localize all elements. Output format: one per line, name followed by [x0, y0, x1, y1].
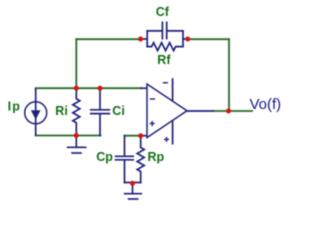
svg-text:Cf: Cf: [156, 5, 170, 19]
svg-text:Ip: Ip: [8, 100, 22, 114]
svg-text:Cp: Cp: [96, 150, 113, 164]
svg-text:Vo(f): Vo(f): [250, 96, 282, 113]
svg-text:Rp: Rp: [148, 150, 165, 164]
svg-text:Ci: Ci: [112, 104, 125, 118]
svg-text:Rf: Rf: [157, 53, 171, 67]
svg-text:Ri: Ri: [55, 104, 68, 118]
